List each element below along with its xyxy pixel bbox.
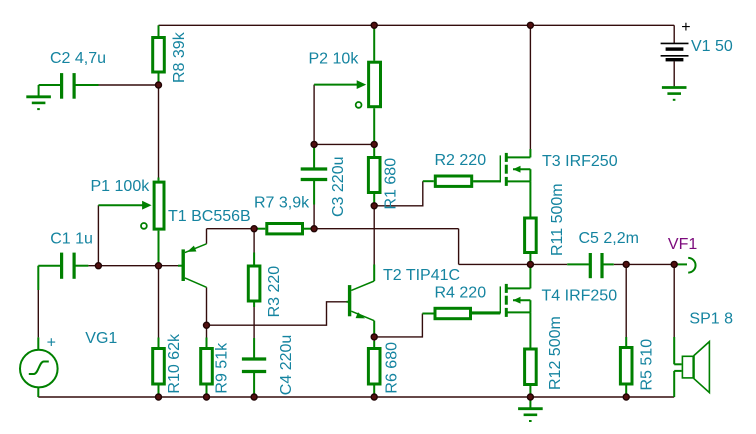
- svg-text:V1 50: V1 50: [691, 38, 733, 55]
- resistor R11: [529, 181, 531, 216]
- wire R9 top lead: [206, 325, 208, 337]
- wire C2 to R8 node: [99, 84, 159, 86]
- node T2e/R6: [371, 334, 377, 340]
- wire R6 top lead: [373, 337, 375, 341]
- svg-text:VF1: VF1: [668, 236, 697, 253]
- capacitor C2 plates: [60, 73, 63, 99]
- wire R3 top lead: [253, 229, 255, 253]
- svg-text:+: +: [47, 334, 56, 351]
- wire T1 emitter to R7: [207, 228, 255, 230]
- transistor T2: [347, 301, 349, 303]
- node R7/R3/T1e: [251, 226, 257, 232]
- wire T2 emitter to R4: [374, 314, 422, 337]
- node C5/R5: [623, 261, 629, 267]
- node C2/R8: [156, 82, 162, 88]
- resistor R3: [253, 253, 255, 265]
- node P2/R1: [371, 141, 377, 147]
- svg-text:R4 220: R4 220: [435, 285, 487, 302]
- wire R5 top lead: [625, 264, 627, 337]
- svg-text:SP1 8: SP1 8: [689, 311, 733, 328]
- capacitor C4 plates: [242, 357, 266, 360]
- wire T3 drain from rail: [529, 25, 531, 149]
- wire R8 node down to P1: [158, 85, 160, 178]
- capacitor C3 plates: [301, 167, 328, 170]
- wire battery top lead: [673, 25, 675, 43]
- node output: [527, 261, 533, 267]
- resistor R1: [373, 144, 375, 156]
- wire output node to C5: [530, 263, 567, 265]
- node wiper/C3: [311, 141, 317, 147]
- wire R1 bottom to T2 collector: [373, 206, 375, 265]
- node VF1: [671, 261, 677, 267]
- resistor R12: [529, 312, 531, 347]
- node rail R6: [371, 394, 377, 400]
- resistor R8: [158, 25, 160, 36]
- wire P1 wiper drop: [97, 205, 99, 266]
- wire C5 to VF1 node: [614, 263, 674, 265]
- svg-text:T4 IRF250: T4 IRF250: [542, 288, 618, 305]
- wire bootstrap to output node: [459, 263, 530, 265]
- resistor R5: [625, 337, 627, 346]
- svg-text:R9 51k: R9 51k: [213, 342, 230, 394]
- ground at output stage: [529, 397, 531, 409]
- mosfet T4: [529, 264, 531, 288]
- output terminal VF1: [674, 263, 687, 265]
- wire C3 bottom stub: [313, 205, 315, 229]
- wire T1 collector drop: [206, 287, 208, 325]
- svg-text:R1 680: R1 680: [383, 158, 400, 210]
- resistor R7: [254, 228, 265, 230]
- wire C1 to T1 base node: [88, 265, 178, 267]
- svg-text:C5 2,2m: C5 2,2m: [579, 230, 639, 247]
- node P2 top: [371, 22, 377, 28]
- node rail R9: [204, 394, 210, 400]
- source VG1: [37, 337, 39, 350]
- svg-text:R7 3,9k: R7 3,9k: [254, 195, 310, 212]
- svg-text:R2 220: R2 220: [435, 152, 487, 169]
- speaker SP1: [673, 337, 675, 364]
- node C1/P1 wiper: [95, 263, 101, 269]
- node C3/bootstrap: [311, 226, 317, 232]
- svg-text:R5 510: R5 510: [638, 339, 655, 391]
- capacitor C1 plates: [60, 253, 63, 279]
- resistor R10: [158, 338, 160, 348]
- svg-text:VG1: VG1: [85, 330, 117, 347]
- battery V1: [661, 42, 689, 44]
- wire P2 wiper drop: [313, 85, 315, 145]
- svg-text:P1 100k: P1 100k: [91, 178, 151, 195]
- mosfet T3: [529, 149, 531, 157]
- node rail C4: [251, 394, 257, 400]
- transistor T1: [178, 265, 182, 267]
- wire bootstrap horizontal: [314, 228, 459, 230]
- wire R10 top lead: [158, 266, 160, 338]
- svg-text:C3 220u: C3 220u: [330, 157, 347, 218]
- svg-text:T1 BC556B: T1 BC556B: [168, 208, 251, 225]
- svg-text:R11 500m: R11 500m: [549, 183, 566, 256]
- potentiometer P1: [154, 182, 164, 229]
- svg-text:T2 TIP41C: T2 TIP41C: [383, 267, 460, 284]
- node rail R10: [156, 394, 162, 400]
- wire R3 to C4 link: [253, 307, 255, 338]
- svg-text:C4 220u: C4 220u: [278, 335, 295, 396]
- resistor R9: [206, 338, 208, 348]
- wire bootstrap vertical: [458, 229, 460, 265]
- node T1c/R9: [204, 322, 210, 328]
- wire top supply rail: [159, 24, 675, 26]
- wire battery bottom lead: [673, 61, 675, 86]
- potentiometer P2: [373, 25, 375, 60]
- ground below C2: [26, 95, 51, 98]
- wire T1 collector to T2 base: [207, 302, 347, 325]
- svg-text:R12 500m: R12 500m: [547, 316, 564, 390]
- wire T1 emitter stub: [206, 229, 208, 244]
- svg-text:R10 62k: R10 62k: [166, 333, 183, 394]
- svg-text:C1 1u: C1 1u: [50, 231, 93, 248]
- wire R1 bottom to R2: [374, 181, 423, 206]
- resistor R4: [422, 313, 433, 315]
- wire VF1 node to speaker: [673, 264, 675, 337]
- wire bottom ground rail: [38, 396, 674, 398]
- ground below V1: [673, 86, 675, 87]
- node rail R5: [623, 394, 629, 400]
- node T1 base: [156, 263, 162, 269]
- resistor R2: [423, 180, 434, 182]
- node T3 drain: [527, 22, 533, 28]
- node rail gnd: [527, 394, 533, 400]
- svg-text:T3 IRF250: T3 IRF250: [542, 153, 618, 170]
- svg-text:R8 39k: R8 39k: [171, 31, 188, 83]
- wire wiper node to P2 bottom node: [314, 143, 374, 145]
- svg-text:R6 680: R6 680: [383, 342, 400, 394]
- wire C1 left down to VG1: [37, 290, 39, 337]
- resistor R6: [373, 341, 375, 347]
- node R1/R2/T2: [371, 203, 377, 209]
- svg-text:+: +: [681, 19, 690, 36]
- svg-text:R3 220: R3 220: [266, 266, 283, 318]
- svg-text:C2 4,7u: C2 4,7u: [50, 50, 106, 67]
- capacitor C5 plates: [589, 253, 592, 278]
- svg-text:P2 10k: P2 10k: [309, 50, 360, 67]
